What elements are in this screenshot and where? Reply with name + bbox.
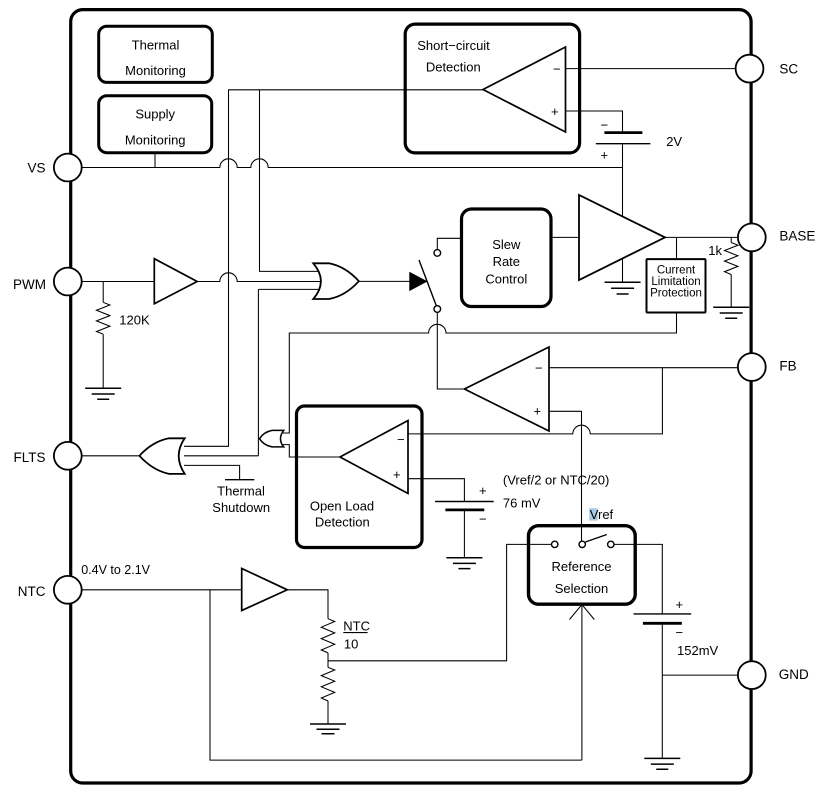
svg-text:Rate: Rate: [493, 254, 520, 269]
svg-text:Open Load: Open Load: [310, 499, 374, 514]
svg-text:Current: Current: [657, 265, 696, 277]
svg-text:−: −: [601, 118, 609, 133]
block U_old Open Load Detection: [297, 406, 423, 548]
svg-text:SC: SC: [779, 62, 798, 77]
svg-text:10: 10: [344, 637, 358, 652]
wire divider tap to reference selection left terminal: [328, 544, 552, 660]
pin FLTS: [54, 442, 82, 470]
or-gate G3 fault combine (mirrored small): [260, 430, 284, 447]
wire fault net vertical (small OR output to FLTS OR middle input): [184, 289, 258, 455]
svg-text:NTC: NTC: [18, 584, 46, 599]
svg-text:Vref: Vref: [590, 507, 614, 522]
svg-text:Slew: Slew: [492, 237, 521, 252]
block U_clp Current Limitation Protection: [647, 259, 706, 312]
svg-text:+: +: [676, 597, 684, 612]
wire OR1 bottom input from fault net: [258, 288, 322, 290]
wire SC output branch to OR1 top input (vertical B): [260, 90, 323, 272]
wire small OR bottom input from OLD comparator output: [283, 445, 340, 457]
IC outline: [71, 10, 751, 783]
wire FB+ input to reference selection middle terminal: [549, 411, 582, 541]
block U_slew Slew Rate Control: [462, 209, 552, 307]
svg-text:FLTS: FLTS: [13, 450, 45, 465]
svg-text:NTC: NTC: [343, 619, 370, 634]
svg-text:Selection: Selection: [555, 581, 608, 596]
comparator U2 short-circuit: [483, 47, 566, 132]
wire NTC rail to buffer: [82, 589, 242, 591]
wire supply monitoring to VS rail: [154, 153, 156, 168]
svg-text:−: −: [676, 625, 684, 640]
svg-text:76 mV: 76 mV: [503, 495, 541, 510]
wire OLD+ input to 76mV battery: [408, 479, 464, 502]
svg-text:1k: 1k: [708, 243, 722, 258]
svg-text:VS: VS: [27, 160, 45, 175]
switch SW1 arrow head: [410, 273, 427, 291]
node Vref label with highlight: [589, 508, 597, 520]
svg-text:FB: FB: [779, 359, 796, 374]
wire thermal shutdown to FLTS OR bottom input: [184, 465, 240, 479]
resistor R lower divider: [327, 661, 329, 668]
svg-text:PWM: PWM: [13, 277, 46, 292]
wire reference selection right terminal to 152mV battery and GND pin: [614, 544, 662, 614]
wire FB- input to FB pin: [549, 367, 738, 369]
wire VS rail with hops: [82, 159, 623, 168]
wire NTC branch down to bottom rail to reference selection arrow: [210, 590, 582, 760]
block U_supply Supply Monitoring: [99, 96, 212, 153]
pin VS: [54, 154, 82, 182]
svg-text:−: −: [535, 360, 543, 375]
buffer A3 NTC: [242, 569, 288, 611]
ground for 120K: [85, 388, 121, 399]
block U_thermal Thermal Monitoring: [99, 26, 213, 82]
svg-text:−: −: [479, 512, 487, 527]
svg-text:Thermal: Thermal: [217, 484, 265, 499]
svg-text:Short−circuit: Short−circuit: [417, 38, 490, 53]
svg-text:+: +: [551, 104, 559, 119]
wire 1k branch: [730, 237, 732, 307]
op-amp A2 output driver: [579, 195, 665, 280]
wire NTC buffer output to divider: [287, 590, 328, 619]
svg-text:120K: 120K: [119, 312, 150, 327]
pin BASE: [738, 224, 766, 252]
ground for NTC divider: [310, 724, 346, 734]
block U_ref Reference Selection: [529, 526, 636, 605]
svg-text:Detection: Detection: [315, 514, 370, 529]
battery B1 2V: [604, 131, 642, 134]
wire OLD- input to FB net with hop: [408, 368, 662, 434]
svg-text:−: −: [553, 62, 561, 77]
svg-text:Limitation: Limitation: [651, 276, 700, 288]
svg-text:0.4V to 2.1V: 0.4V to 2.1V: [81, 563, 150, 577]
battery B2 76mV: [435, 501, 494, 503]
svg-text:+: +: [534, 404, 542, 419]
svg-text:+: +: [393, 467, 401, 482]
svg-text:GND: GND: [779, 667, 809, 682]
battery B3 152mV: [634, 613, 692, 615]
svg-text:+: +: [601, 148, 609, 163]
wire SC- input to SC pin: [565, 68, 738, 70]
svg-text:−: −: [397, 432, 405, 447]
pin FB: [738, 353, 766, 381]
pin NTC: [54, 576, 82, 604]
svg-text:Detection: Detection: [426, 60, 481, 75]
ground for 152mV battery: [644, 758, 680, 769]
resistor R NTC: [321, 619, 334, 653]
svg-text:Protection: Protection: [650, 288, 702, 300]
svg-text:Monitoring: Monitoring: [125, 132, 186, 147]
wire 2V battery to VS rail and amp bias to ground: [622, 144, 624, 283]
wire reference selection bottom arrow: [581, 605, 583, 761]
wire 120K branch: [102, 282, 104, 389]
pin PWM: [54, 268, 82, 296]
wire buffer to OR1 with hop: [197, 273, 322, 282]
svg-text:BASE: BASE: [779, 229, 815, 244]
pin SC: [736, 55, 764, 83]
comparator U4 open load: [340, 421, 408, 494]
svg-text:Reference: Reference: [552, 559, 612, 574]
svg-text:Control: Control: [485, 271, 527, 286]
wire FLTS OR output to FLTS pin: [82, 455, 139, 457]
svg-text:152mV: 152mV: [677, 643, 719, 658]
svg-text:Monitoring: Monitoring: [125, 63, 186, 78]
wire PWM rail to buffer: [82, 281, 154, 283]
comparator U3 FB: [464, 347, 549, 431]
wire CLP output to small OR top input with hop: [283, 313, 677, 434]
ground for 1k: [713, 307, 749, 318]
wire amp output to BASE pin: [665, 236, 738, 238]
switch SW2 reference selection contacts: [552, 541, 558, 547]
terminal thermal shutdown: [225, 479, 254, 481]
svg-text:(Vref/2 or NTC/20): (Vref/2 or NTC/20): [503, 473, 609, 488]
svg-text:+: +: [479, 483, 487, 498]
wire OR1 output to switch arrow: [359, 280, 410, 282]
ground for amp bias: [605, 282, 641, 294]
ground for 76mV battery: [446, 558, 482, 569]
buffer A1 PWM input: [154, 259, 197, 304]
resistor R 1k: [725, 243, 738, 275]
svg-text:2V: 2V: [666, 134, 682, 149]
svg-text:Thermal: Thermal: [132, 38, 180, 53]
wire switch bottom to FB comparator output: [437, 312, 464, 389]
wire slew control output to amp: [551, 236, 579, 238]
or-gate G2 FLTS (mirrored): [139, 438, 184, 474]
svg-text:Shutdown: Shutdown: [212, 500, 270, 515]
wire branch to CLP top: [676, 237, 678, 259]
wire SC comparator output to FLTS or-gate (vertical A): [184, 90, 483, 447]
pin GND: [738, 661, 766, 689]
wire SC+ input to 2V battery: [565, 111, 623, 133]
block U_sc Short-circuit Detection: [405, 24, 579, 153]
or-gate G1 PWM path: [313, 263, 359, 299]
switch SW1 arm and contacts: [419, 260, 437, 307]
wire slew control input from switch top: [437, 238, 461, 249]
svg-text:Supply: Supply: [135, 107, 175, 122]
resistor R 120K: [97, 302, 110, 334]
